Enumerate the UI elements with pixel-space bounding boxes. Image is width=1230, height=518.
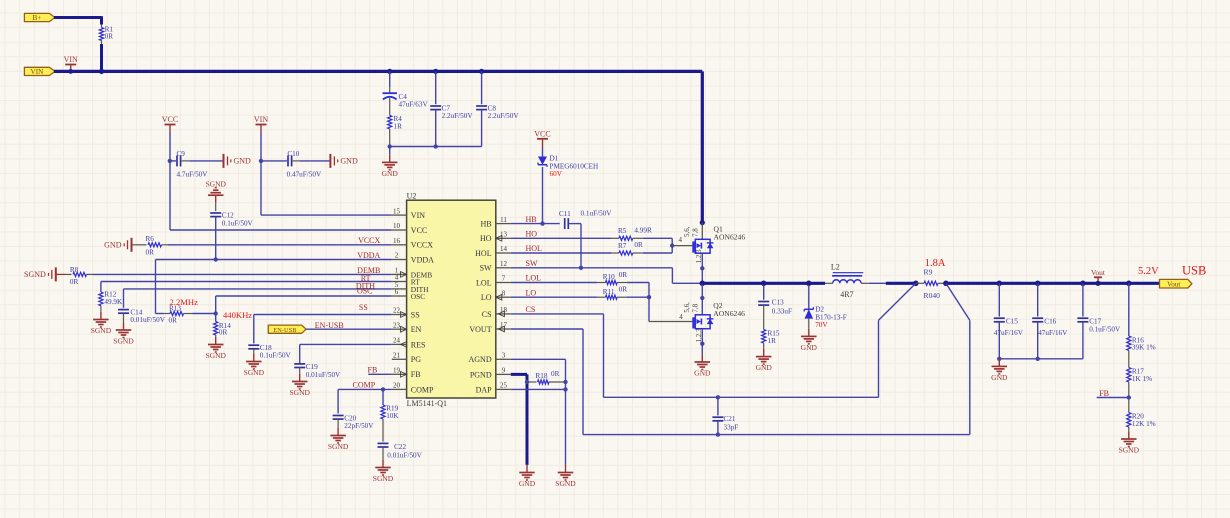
svg-text:47uF/16V: 47uF/16V xyxy=(994,329,1024,337)
resistor R1 0R xyxy=(101,25,103,28)
pin 25 DAP xyxy=(496,388,511,390)
svg-text:C19: C19 xyxy=(306,363,318,371)
port VIN xyxy=(24,67,55,75)
wire HB xyxy=(511,223,560,225)
resistor R20 12K 1% xyxy=(1127,413,1131,428)
capacitor C10 0.47uF/50V xyxy=(261,160,287,162)
pin 9 PGND xyxy=(496,373,511,375)
svg-text:SGND: SGND xyxy=(205,351,226,360)
svg-text:2.2uF/50V: 2.2uF/50V xyxy=(488,112,520,120)
pin 10 VCC xyxy=(392,229,407,231)
svg-text:C14: C14 xyxy=(130,308,142,316)
junction C16 xyxy=(1035,281,1041,287)
wire RES xyxy=(300,343,392,345)
pin 4 RT xyxy=(392,281,407,283)
wire B+ to R1 xyxy=(54,16,102,19)
capacitor C8 2.2uF/50V xyxy=(481,71,483,104)
svg-text:0.01uF/50V: 0.01uF/50V xyxy=(306,371,341,379)
svg-text:47uF/16V: 47uF/16V xyxy=(1038,329,1068,337)
pin 7 LOL xyxy=(496,282,511,284)
svg-text:HOL: HOL xyxy=(526,244,543,253)
junction C10 xyxy=(259,159,263,163)
svg-text:AGND: AGND xyxy=(468,355,491,364)
resistor R11 0R xyxy=(597,296,606,298)
svg-text:SGND: SGND xyxy=(328,442,349,451)
svg-text:GND: GND xyxy=(382,169,399,178)
pin 13 HO xyxy=(496,237,511,239)
capacitor C14 0.01uF/50V xyxy=(118,309,129,311)
svg-text:VIN: VIN xyxy=(254,115,268,124)
svg-text:16: 16 xyxy=(393,237,401,245)
pin 16 VCCX xyxy=(392,244,407,246)
wire CS kelvin left diagonal xyxy=(879,283,916,320)
svg-text:VCCX: VCCX xyxy=(358,236,380,245)
pin 2 VDDA xyxy=(392,259,407,261)
svg-text:1K 1%: 1K 1% xyxy=(1132,375,1152,383)
svg-text:0R: 0R xyxy=(551,370,560,378)
svg-text:10: 10 xyxy=(393,222,401,230)
capacitor C21 33pF xyxy=(716,395,720,399)
junction C4 top xyxy=(387,69,392,74)
pin 19 FB xyxy=(392,373,407,375)
wire COMP xyxy=(338,388,392,390)
ground GND under R15 xyxy=(763,349,765,357)
svg-text:EN: EN xyxy=(411,325,422,334)
op-amp U2 LM5141-Q1 body xyxy=(407,200,496,398)
svg-text:CS: CS xyxy=(526,305,536,314)
svg-text:HB: HB xyxy=(526,215,537,224)
wire VIN bus top xyxy=(54,70,702,73)
capacitor C18 0.1uF/50V xyxy=(248,344,259,346)
svg-text:AON6246: AON6246 xyxy=(713,309,745,318)
svg-text:VOUT: VOUT xyxy=(469,325,491,334)
wire DITH xyxy=(124,288,392,290)
svg-text:PMEG6010CEH: PMEG6010CEH xyxy=(550,162,599,170)
svg-text:GND: GND xyxy=(694,368,711,377)
svg-text:47uF/63V: 47uF/63V xyxy=(399,100,429,108)
capacitor C9 4.7uF/50V xyxy=(170,160,176,162)
capacitor C11 0.1uF/50V xyxy=(564,218,566,229)
pin 8 LO xyxy=(496,296,511,298)
wire VIN rail xyxy=(260,132,262,215)
resistor R17 1K 1% xyxy=(1127,368,1131,383)
pin 21 PG xyxy=(392,358,407,360)
pin 23 EN xyxy=(392,328,407,330)
svg-text:C12: C12 xyxy=(222,212,234,220)
svg-text:LO: LO xyxy=(526,288,537,297)
svg-text:R6: R6 xyxy=(146,235,155,243)
pin 1 DEMB xyxy=(392,273,407,275)
wire EN xyxy=(306,328,392,330)
svg-text:1R: 1R xyxy=(768,337,777,345)
junction D1/HB xyxy=(540,221,544,225)
svg-text:FB: FB xyxy=(411,370,421,379)
svg-text:B+: B+ xyxy=(32,14,41,22)
wire FB xyxy=(368,373,392,375)
wire LO xyxy=(511,296,597,298)
ground SGND under R14 xyxy=(215,337,217,345)
svg-text:LM5141-Q1: LM5141-Q1 xyxy=(407,399,447,408)
svg-text:1.8A: 1.8A xyxy=(925,258,946,269)
svg-text:4R7: 4R7 xyxy=(840,290,853,299)
svg-text:4.99R: 4.99R xyxy=(634,226,652,234)
resistor R16 39K 1% xyxy=(1128,283,1130,336)
svg-text:39K 1%: 39K 1% xyxy=(1132,344,1156,352)
svg-text:3: 3 xyxy=(502,352,506,360)
junction SW bus xyxy=(700,281,706,287)
svg-text:C11: C11 xyxy=(559,210,571,218)
svg-text:4: 4 xyxy=(679,313,683,321)
svg-text:0.1uF/50V: 0.1uF/50V xyxy=(581,209,613,217)
resistor R18 0R xyxy=(525,380,529,384)
svg-text:RES: RES xyxy=(411,340,426,349)
junction C12/VDDA xyxy=(214,257,218,261)
wire SS xyxy=(254,314,392,316)
pin 15 VIN xyxy=(392,214,407,216)
wire OSC xyxy=(216,295,392,297)
svg-text:25: 25 xyxy=(500,382,508,390)
ground GND under PGND xyxy=(526,465,528,473)
pin 17 VOUT xyxy=(496,328,511,330)
ground SGND above C12 xyxy=(215,195,217,203)
resistor R13 0R xyxy=(164,313,170,315)
diode D1 PMEG6010CEH xyxy=(542,148,544,157)
wire FB right xyxy=(1097,397,1129,399)
svg-text:10K: 10K xyxy=(386,412,399,420)
wire R1 to VIN bus xyxy=(100,44,103,73)
svg-text:L2: L2 xyxy=(831,263,840,272)
wire HO xyxy=(511,237,612,239)
svg-text:0.47uF/50V: 0.47uF/50V xyxy=(287,170,322,178)
svg-text:R11: R11 xyxy=(603,288,615,296)
svg-text:GND: GND xyxy=(104,241,122,250)
wire Q1 gate join xyxy=(671,238,673,253)
svg-text:GND: GND xyxy=(340,157,358,166)
svg-text:SGND: SGND xyxy=(113,336,134,345)
svg-text:33pF: 33pF xyxy=(724,424,739,432)
power port Vout xyxy=(1094,276,1102,278)
wire VDDA xyxy=(216,259,392,261)
pin 5 DITH xyxy=(392,288,407,290)
svg-text:VDDA: VDDA xyxy=(357,251,380,260)
wire Q2 gate join xyxy=(648,283,650,322)
capacitor C22 0.01uF/50V xyxy=(378,442,389,444)
svg-text:0R: 0R xyxy=(105,33,114,41)
junction R4 bottom xyxy=(388,144,392,148)
resistor R10 0R xyxy=(597,282,606,284)
wire cap bottoms out xyxy=(999,358,1083,360)
wire RT xyxy=(101,281,392,283)
ground GND under D2 xyxy=(808,329,810,337)
svg-text:SGND: SGND xyxy=(244,368,265,377)
svg-text:0.1uF/50V: 0.1uF/50V xyxy=(1089,326,1121,334)
junction C17 xyxy=(1080,281,1086,287)
svg-text:EN-USB: EN-USB xyxy=(273,327,296,334)
ground SGND under AGND xyxy=(565,465,567,473)
wire VIN bus drop to Q1 drain xyxy=(701,71,704,222)
svg-text:0R: 0R xyxy=(619,271,628,279)
svg-text:9: 9 xyxy=(502,367,506,375)
svg-text:11: 11 xyxy=(500,216,507,224)
wire Q2 source to GND xyxy=(701,329,703,355)
svg-text:22pF/50V: 22pF/50V xyxy=(344,422,374,430)
wire VCC rail xyxy=(169,132,171,230)
svg-text:VIN: VIN xyxy=(31,68,45,76)
svg-text:GND: GND xyxy=(234,157,252,166)
power port SGND left of R8 xyxy=(55,267,57,281)
capacitor C19 0.01uF/50V xyxy=(294,363,305,365)
svg-text:HO: HO xyxy=(480,234,492,243)
svg-text:SS: SS xyxy=(411,310,420,319)
svg-text:60V: 60V xyxy=(550,170,563,178)
svg-text:SGND: SGND xyxy=(289,388,310,397)
svg-text:R18: R18 xyxy=(536,372,548,380)
svg-text:SW: SW xyxy=(526,259,538,268)
svg-text:C22: C22 xyxy=(394,443,406,451)
svg-text:15: 15 xyxy=(393,207,401,215)
svg-text:FB: FB xyxy=(1099,389,1109,398)
svg-text:C16: C16 xyxy=(1044,317,1056,325)
junction C9 xyxy=(168,159,172,163)
ground GND under Q2 xyxy=(701,354,703,362)
svg-text:USB: USB xyxy=(1182,264,1206,278)
svg-text:LOL: LOL xyxy=(526,274,542,283)
junction R16 top xyxy=(1126,281,1132,287)
pin 3 AGND xyxy=(496,358,511,360)
svg-text:0.1uF/50V: 0.1uF/50V xyxy=(260,352,292,360)
capacitor C15 47uF/16V xyxy=(998,283,1000,316)
svg-text:COMP: COMP xyxy=(353,381,376,390)
svg-text:HOL: HOL xyxy=(475,249,492,258)
ground SGND under R12 xyxy=(100,312,102,320)
svg-text:VIN: VIN xyxy=(64,55,78,64)
svg-text:SGND: SGND xyxy=(555,479,576,488)
svg-text:49.9K: 49.9K xyxy=(104,298,123,306)
svg-text:C20: C20 xyxy=(344,414,356,422)
svg-text:440KHz: 440KHz xyxy=(223,310,252,320)
svg-text:14: 14 xyxy=(500,245,508,253)
svg-text:0R: 0R xyxy=(169,317,178,325)
ground SGND under C22 xyxy=(382,460,384,468)
wire DAP xyxy=(511,388,566,390)
svg-text:PG: PG xyxy=(411,355,421,364)
wire AGND xyxy=(511,358,566,360)
ground SGND under R20 xyxy=(1128,431,1130,439)
svg-text:GND: GND xyxy=(991,373,1008,382)
svg-text:12: 12 xyxy=(500,260,508,268)
transistor Q2 AON6246 xyxy=(701,283,703,315)
wire output bus thick xyxy=(946,282,1161,285)
svg-text:HO: HO xyxy=(526,230,538,239)
power port VCC left xyxy=(165,124,176,126)
resistor R6 0R xyxy=(132,244,147,246)
svg-text:4: 4 xyxy=(679,236,683,244)
svg-text:VCC: VCC xyxy=(534,129,550,138)
svg-text:DAP: DAP xyxy=(476,385,493,394)
svg-text:22: 22 xyxy=(393,307,401,315)
resistor R14 0R xyxy=(215,314,217,322)
svg-text:VCCX: VCCX xyxy=(411,241,433,250)
svg-text:12K 1%: 12K 1% xyxy=(1132,420,1156,428)
wire HOL xyxy=(511,252,612,254)
svg-text:SGND: SGND xyxy=(205,179,226,188)
svg-text:0.33uF: 0.33uF xyxy=(772,307,792,315)
svg-text:6: 6 xyxy=(395,288,399,296)
svg-text:5,6,: 5,6, xyxy=(683,302,691,313)
svg-text:R10: R10 xyxy=(603,273,615,281)
svg-text:OSC: OSC xyxy=(411,292,425,301)
capacitor C20 22pF/50V xyxy=(333,415,344,417)
svg-text:R5: R5 xyxy=(618,227,627,235)
svg-text:PGND: PGND xyxy=(470,370,492,379)
pin 24 RES xyxy=(392,343,407,345)
wire PGND thick xyxy=(511,373,527,376)
wire C11 to SW xyxy=(580,224,582,268)
svg-text:Vout: Vout xyxy=(1167,280,1180,288)
svg-text:C17: C17 xyxy=(1089,317,1101,325)
svg-text:0.1uF/50V: 0.1uF/50V xyxy=(222,219,254,227)
svg-text:0R: 0R xyxy=(634,241,643,249)
resistor R4 1R xyxy=(388,115,392,128)
junction C11/SW xyxy=(579,266,583,270)
wire Q1 source xyxy=(701,253,703,283)
ground SGND under C19 xyxy=(299,374,301,382)
junction R9 right xyxy=(943,281,949,287)
svg-text:2: 2 xyxy=(395,252,399,260)
svg-text:D1: D1 xyxy=(550,155,559,163)
capacitor C12 0.1uF/50V xyxy=(215,203,217,211)
svg-text:C18: C18 xyxy=(260,344,272,352)
junction C7 top xyxy=(433,69,438,74)
svg-text:GND: GND xyxy=(801,343,818,352)
junction OSC/R13/R14 xyxy=(214,311,218,315)
svg-text:GND: GND xyxy=(519,479,536,488)
svg-text:1R: 1R xyxy=(394,123,403,131)
junction COMP/R19 xyxy=(381,387,385,391)
svg-text:2.2uF/50V: 2.2uF/50V xyxy=(442,112,474,120)
wire SW xyxy=(511,267,673,269)
svg-text:19: 19 xyxy=(393,367,401,375)
svg-text:0R: 0R xyxy=(619,286,628,294)
svg-text:70V: 70V xyxy=(815,321,828,329)
wire VOUT kelvin right diagonal xyxy=(946,283,970,320)
svg-text:VCC: VCC xyxy=(162,115,178,124)
svg-text:SGND: SGND xyxy=(24,270,46,279)
inductor L2 4R7 xyxy=(825,282,833,284)
svg-text:R8: R8 xyxy=(70,266,79,274)
svg-text:SS: SS xyxy=(359,303,368,312)
svg-text:R7: R7 xyxy=(618,242,627,250)
resistor R15 1R xyxy=(762,330,766,344)
junction C15 xyxy=(997,281,1003,287)
svg-text:C21: C21 xyxy=(724,415,736,423)
wire VOUT sense xyxy=(511,328,583,330)
svg-text:7,8: 7,8 xyxy=(692,303,700,312)
junction C8 top xyxy=(479,69,484,74)
wire CS xyxy=(511,313,604,315)
svg-text:5.2V: 5.2V xyxy=(1138,266,1159,277)
port Vout xyxy=(1160,279,1192,288)
svg-text:7: 7 xyxy=(502,275,506,283)
svg-text:0.01uF/50V: 0.01uF/50V xyxy=(130,316,165,324)
svg-text:U2: U2 xyxy=(407,192,417,201)
svg-text:COMP: COMP xyxy=(411,385,434,394)
power port GND right of C10 xyxy=(329,154,331,168)
port EN-USB xyxy=(268,325,306,333)
svg-text:SGND: SGND xyxy=(91,326,112,335)
svg-text:FB: FB xyxy=(368,366,378,375)
wire cap bottoms xyxy=(390,146,482,148)
wire LOL xyxy=(511,282,597,284)
resistor R7 0R xyxy=(612,252,619,254)
svg-text:0R: 0R xyxy=(146,249,155,257)
pin 18 CS xyxy=(496,313,511,315)
capacitor C13 0.33uF xyxy=(763,283,765,299)
ground SGND under C14 xyxy=(123,322,125,330)
power port VCC top xyxy=(537,138,548,140)
svg-text:24: 24 xyxy=(393,337,401,345)
svg-text:VCC: VCC xyxy=(411,226,427,235)
svg-text:21: 21 xyxy=(393,352,401,360)
svg-text:C10: C10 xyxy=(287,150,299,158)
svg-text:5,6,: 5,6, xyxy=(683,226,691,237)
svg-text:SW: SW xyxy=(480,264,492,273)
svg-text:HB: HB xyxy=(480,220,491,229)
resistor R8 0R xyxy=(56,273,65,275)
svg-text:SGND: SGND xyxy=(373,474,394,483)
svg-text:2.2MHz: 2.2MHz xyxy=(170,297,199,307)
port B+ xyxy=(24,13,55,21)
pin 11 HB xyxy=(496,223,511,225)
capacitor C4 47uF/63V polarized xyxy=(389,71,391,87)
pin 20 COMP xyxy=(392,388,407,390)
junction C7 bottom xyxy=(434,144,438,148)
svg-text:VDDA: VDDA xyxy=(411,255,434,264)
svg-text:C9: C9 xyxy=(177,150,186,158)
svg-text:8: 8 xyxy=(502,289,506,297)
svg-text:0R: 0R xyxy=(70,278,79,286)
pin arrows xyxy=(401,272,407,278)
pin 6 OSC xyxy=(392,295,407,297)
svg-text:GND: GND xyxy=(756,363,773,372)
svg-text:C15: C15 xyxy=(1006,317,1018,325)
wire VCCX xyxy=(168,244,392,246)
resistor R19 10K xyxy=(382,389,384,405)
svg-text:C13: C13 xyxy=(772,299,784,307)
capacitor C16 47uF/16V xyxy=(1037,283,1039,316)
svg-text:0.01uF/50V: 0.01uF/50V xyxy=(387,451,422,459)
svg-text:Vout: Vout xyxy=(1091,268,1106,277)
diode D2 B170-13-F xyxy=(808,283,810,309)
svg-text:OSC: OSC xyxy=(357,287,373,296)
capacitor C17 0.1uF/50V xyxy=(1082,283,1084,316)
svg-text:23: 23 xyxy=(393,321,401,329)
wire SW bus thick xyxy=(702,282,825,285)
resistor R12 49.9K xyxy=(99,292,103,306)
svg-text:LO: LO xyxy=(481,293,492,302)
power port GND left of R6 xyxy=(131,238,133,252)
pin 22 SS xyxy=(392,314,407,316)
junction FB divider xyxy=(1127,395,1131,399)
power port GND right of C9 xyxy=(223,154,225,168)
junction R9 left xyxy=(913,281,919,287)
power port VIN left xyxy=(256,124,267,126)
junction VIN power xyxy=(68,69,73,74)
power port VIN xyxy=(65,64,76,66)
svg-text:VIN: VIN xyxy=(411,211,425,220)
svg-text:R040: R040 xyxy=(924,291,941,300)
wire DEMB xyxy=(93,273,392,275)
